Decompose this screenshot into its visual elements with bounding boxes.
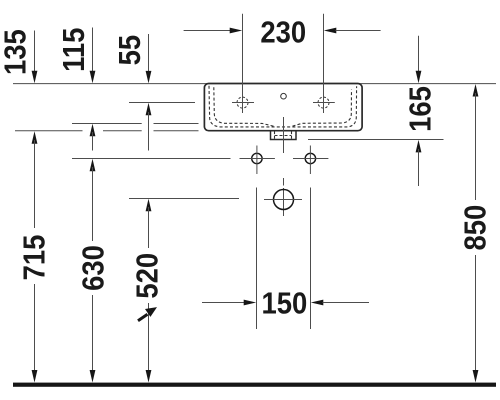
dim 115 arrow [92,28,94,73]
115 level line [72,123,142,125]
svg-text:115: 115 [58,28,92,72]
floor line [13,383,496,387]
washbasin outer outline [204,84,362,131]
wall mounting hole left [252,153,262,163]
dim 165 upper arrow [418,36,420,71]
630 level line [72,158,231,160]
basin inner wall dashed contour (inner line) [214,87,352,126]
165 level line [308,139,444,141]
rim level line [13,83,496,85]
svg-text:715: 715 [18,235,52,281]
dim 850 line [473,84,479,97]
drain box outline [271,131,297,140]
svg-text:520: 520 [131,253,165,299]
dim 135 arrow [34,31,36,73]
dim 230 arrows [184,30,231,32]
715 level line [15,130,83,132]
dim 150 arrows [202,302,245,304]
basin inner wall dashed contour (outer line) [209,86,357,127]
55 level line [129,102,195,104]
overflow hole [281,93,287,99]
right faucet hole [318,97,329,108]
position arrow (northeast) [138,314,148,321]
svg-text:150: 150 [262,287,308,321]
svg-text:850: 850 [459,205,493,251]
dim 520 line [146,199,152,212]
dim 150 extension lines [256,188,258,330]
left faucet hole [237,97,248,108]
dim 55 arrow [148,34,150,72]
svg-text:630: 630 [77,245,111,291]
svg-text:165: 165 [404,86,438,132]
dim 165 lower arrow [416,140,422,153]
svg-text:55: 55 [114,35,148,66]
wall mounting hole right [305,153,315,163]
svg-text:230: 230 [260,16,306,50]
drain centerline [283,117,285,153]
520 level line [129,198,239,200]
drain hidden dashed lines [274,131,276,139]
dim 715 line [32,131,38,144]
svg-text:135: 135 [0,29,33,75]
dim 630 line [90,159,96,172]
dim 230 extension lines [242,14,244,113]
waste outlet [274,190,294,210]
